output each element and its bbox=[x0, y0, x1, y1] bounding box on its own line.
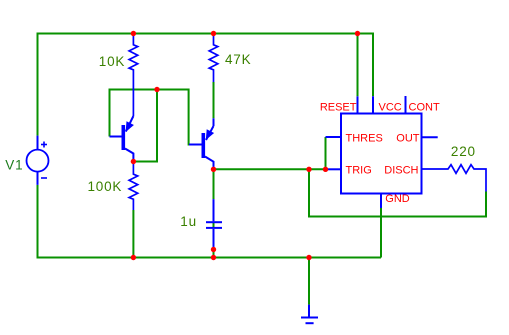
svg-text:TRIG: TRIG bbox=[346, 164, 372, 176]
wire 100K bottom lead bbox=[132, 210, 134, 258]
svg-text:DISCH: DISCH bbox=[384, 164, 418, 176]
node dot Q2 emitter bbox=[211, 167, 216, 172]
resistor 220 (DISCH series) bbox=[422, 165, 487, 192]
node dot 100K rail bbox=[131, 255, 136, 260]
wire capacitor top link bbox=[213, 169, 215, 199]
op IC U1 555 timer box bbox=[341, 114, 422, 194]
ground bbox=[301, 305, 318, 324]
node dot top RESET bbox=[355, 31, 360, 36]
svg-text:100K: 100K bbox=[88, 179, 123, 194]
svg-text:10K: 10K bbox=[99, 54, 125, 69]
svg-text:VCC: VCC bbox=[379, 102, 402, 114]
wire THRES branch bbox=[325, 137, 327, 169]
wire RESET riser bbox=[357, 34, 359, 97]
svg-text:1u: 1u bbox=[180, 214, 197, 229]
svg-text:V1: V1 bbox=[5, 158, 23, 173]
wire 47K to Q2 collector bbox=[213, 82, 215, 118]
wire Q1 emitter to loop branch bbox=[133, 90, 157, 162]
wire capacitor bottom link bbox=[213, 247, 215, 258]
pin RESET bbox=[357, 96, 359, 113]
node dot top 10K bbox=[131, 31, 136, 36]
svg-text:220: 220 bbox=[451, 144, 476, 159]
capacitor C1 1u bbox=[206, 199, 222, 247]
wire GND pin drop bbox=[380, 208, 382, 258]
resistor 100K bbox=[129, 162, 138, 210]
svg-text:GND: GND bbox=[385, 193, 410, 205]
resistor 10K bbox=[129, 34, 138, 116]
node dot top 47K bbox=[211, 31, 216, 36]
resistor 47K bbox=[209, 34, 218, 82]
transistor Q2 bbox=[189, 118, 214, 169]
transistor Q1 bbox=[110, 116, 134, 162]
node dot ground rail bbox=[306, 255, 311, 260]
node dot loop branch bbox=[154, 87, 159, 92]
pin GND bbox=[380, 194, 382, 209]
node dot cap rail bbox=[211, 255, 216, 260]
svg-text:RESET: RESET bbox=[320, 102, 357, 114]
wire trig node down and across to 220 bbox=[309, 169, 486, 216]
pin TRIG bbox=[327, 168, 341, 170]
wire bottom rail bbox=[38, 185, 382, 258]
node dot trig branch bbox=[306, 167, 311, 172]
svg-text:47K: 47K bbox=[225, 52, 251, 67]
wire capacitor middle (under symbol) bbox=[213, 223, 215, 227]
wire Q2 emitter / TRIG row bbox=[214, 168, 329, 170]
svg-text:CONT: CONT bbox=[409, 102, 440, 114]
svg-text:OUT: OUT bbox=[396, 132, 420, 144]
pin THRES bbox=[326, 136, 342, 138]
voltage source V1 bbox=[27, 136, 49, 185]
wire base loop (Q1 collector cross-couple) bbox=[110, 90, 191, 145]
node dot cap bottom bbox=[211, 247, 216, 252]
wire top rail bbox=[38, 34, 374, 136]
pin VCC bbox=[372, 96, 374, 113]
pin OUT bbox=[422, 136, 438, 138]
wire ground branch bbox=[308, 258, 310, 305]
pin CONT bbox=[405, 96, 407, 114]
svg-text:THRES: THRES bbox=[346, 132, 383, 144]
node dot Q1 emitter bbox=[131, 159, 136, 164]
node dot THRES branch bbox=[323, 167, 328, 172]
